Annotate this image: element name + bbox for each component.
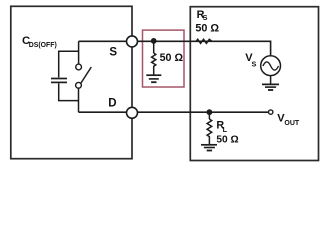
capacitor C_DS(OFF) plates xyxy=(51,79,67,83)
svg-text:L: L xyxy=(223,125,228,134)
switch blade xyxy=(81,67,91,83)
switch contact bottom xyxy=(76,82,82,88)
svg-text:S: S xyxy=(109,47,117,59)
resistor RL lead xyxy=(208,112,210,119)
wire: capacitor connector top xyxy=(59,51,79,77)
wire: switch bottom lead xyxy=(78,88,80,112)
svg-text:50 Ω: 50 Ω xyxy=(195,22,219,34)
ground (shunt) xyxy=(146,75,161,82)
svg-text:50 Ω: 50 Ω xyxy=(216,134,238,145)
svg-text:DS(OFF): DS(OFF) xyxy=(29,42,57,49)
wire: switch top lead xyxy=(78,41,80,64)
node D terminal circle xyxy=(127,107,138,118)
switch contact top xyxy=(76,64,82,70)
left enclosure box xyxy=(11,6,132,158)
node S terminal circle xyxy=(127,36,138,47)
ground (RL) xyxy=(201,145,217,151)
svg-text:S: S xyxy=(203,13,208,22)
wire: D node bottom horizontal xyxy=(79,111,269,113)
ground (Vs) xyxy=(262,84,279,90)
svg-text:50 Ω: 50 Ω xyxy=(160,52,184,64)
junction dot at shunt resistor xyxy=(151,38,157,44)
Vout terminal circle xyxy=(269,110,273,114)
resistor RL zigzag xyxy=(207,119,212,144)
svg-text:S: S xyxy=(252,59,257,68)
resistor RS zigzag xyxy=(196,39,212,43)
wire: capacitor bottom lead xyxy=(59,83,79,100)
wire: S node to Vs (top horizontal) xyxy=(79,41,271,55)
red highlight box xyxy=(143,30,185,87)
junction dot at RL xyxy=(207,109,213,115)
resistor 50ohm shunt lead xyxy=(153,41,155,53)
sine wave xyxy=(263,62,279,70)
svg-text:D: D xyxy=(108,97,116,109)
right enclosure box xyxy=(190,7,318,161)
svg-text:OUT: OUT xyxy=(284,120,300,127)
resistor 50ohm shunt zigzag xyxy=(152,53,156,75)
source Vs circle xyxy=(261,56,281,76)
Vs ground lead xyxy=(270,75,272,83)
